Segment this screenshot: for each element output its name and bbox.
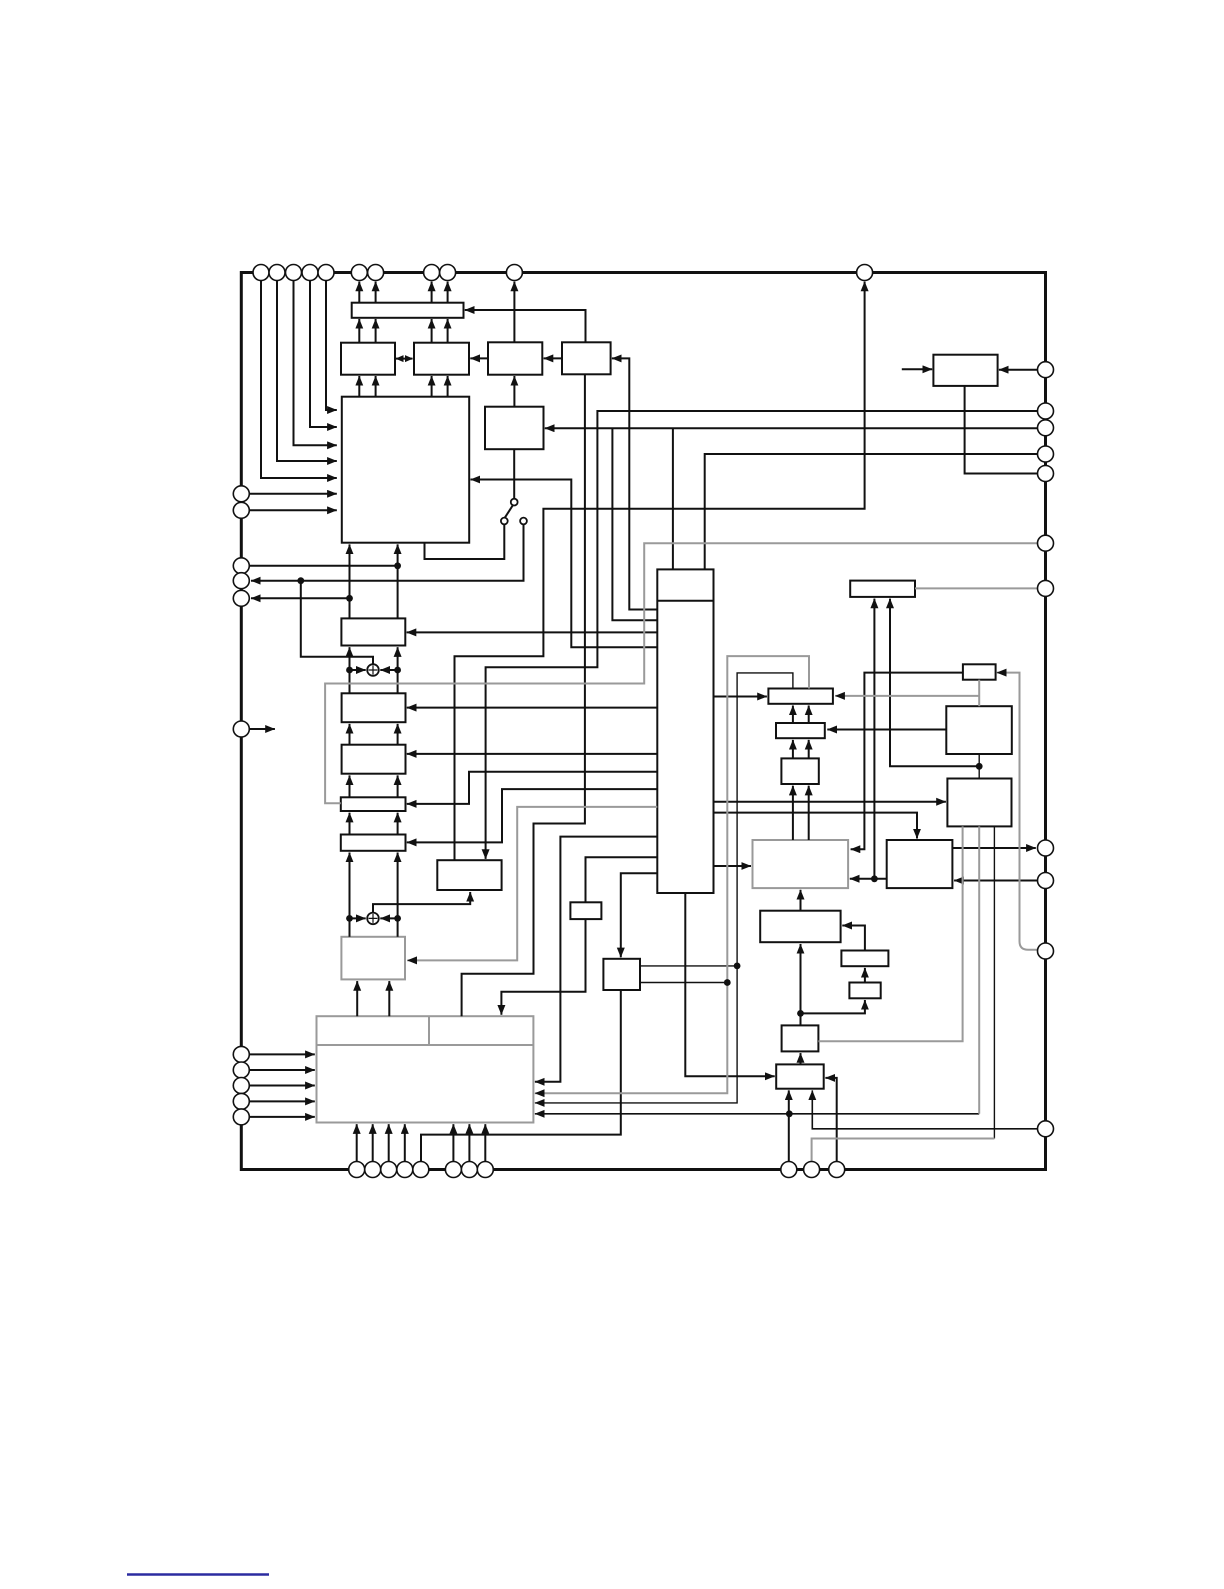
block I: [841, 951, 888, 967]
wire right block to pin R8: [952, 847, 1035, 849]
wire drop to tall block stub 620: [612, 428, 657, 620]
summing junction 1: [367, 664, 379, 676]
wire small mid register to left gray block: [851, 673, 963, 850]
wire tall block stub to big box right input: [471, 480, 658, 648]
blue underline (bottom left): [127, 1573, 269, 1576]
tall converter block: [657, 569, 713, 893]
wire pin T2 to big box input 2: [277, 281, 337, 462]
tall block divider: [657, 600, 713, 602]
block H: [760, 911, 840, 943]
register B2: [776, 723, 825, 738]
gray wire top middle register to pin R7: [915, 587, 1038, 589]
wire pin L2 to big box input 7: [249, 509, 336, 511]
gray wire block K to M2 bottom: [818, 826, 962, 1041]
register P5: [485, 407, 544, 450]
main decoder block (big box): [342, 397, 469, 543]
wire pin B6 to DSP bottom: [452, 1124, 454, 1161]
wire pin T11 to block F via left route: [455, 282, 865, 861]
block J: [849, 983, 880, 999]
wire P1 to bus register left pair: [358, 319, 360, 343]
block M1 (right middle): [946, 706, 1012, 754]
wire node to pin L5: [251, 597, 350, 599]
wire node2 to shift E bottom: [349, 853, 351, 919]
wire block G to DSP pair: [356, 981, 358, 1016]
wire branch to summing node 1: [301, 581, 373, 664]
wire tall block to P4: [612, 358, 657, 609]
wire block H to left gray block: [800, 890, 802, 911]
right border pins: [1038, 362, 1054, 378]
wire register B3 to B2 pair: [792, 740, 794, 759]
wire tall block to shift register D: [407, 772, 658, 804]
wire shift D to shift C: [349, 775, 351, 797]
gray wire pin R6 to shift register D: [325, 543, 1037, 803]
wire shift E to shift D: [349, 813, 351, 835]
DSP divider vertical: [428, 1016, 430, 1045]
summing node 1 input arrows: [350, 669, 366, 671]
block L: [776, 1064, 824, 1088]
wire pin T1 to big box input 1: [261, 281, 337, 479]
wire node down to shift B top: [349, 670, 351, 693]
wire shift C to shift B: [349, 724, 351, 745]
shift register C: [342, 745, 406, 774]
wire switch left contact to big box bottom: [425, 524, 505, 559]
summing junction 2: [367, 913, 379, 925]
IC outer border: [241, 273, 1045, 1170]
wire M2 to DSP right input 4: [535, 1113, 979, 1115]
wire register B2 to B1 pair: [792, 706, 794, 724]
wire branch node to block J bottom: [801, 1000, 865, 1013]
DSP divider horizontal: [317, 1044, 534, 1046]
wire node to shift A bottom: [349, 647, 351, 670]
wire right block output to left gray block: [850, 878, 887, 880]
wire pin R1 to top right block: [999, 369, 1038, 371]
wire P4 to P3: [544, 357, 562, 359]
black bus wire B1 drop to DSP right input 3: [535, 673, 793, 1103]
block G (gray outline): [341, 937, 405, 980]
wire block L to block K: [800, 1053, 802, 1064]
left border pins: [233, 486, 249, 502]
wire node up to top middle register: [873, 599, 875, 879]
small mid register: [963, 664, 996, 679]
junction dots: [394, 562, 401, 569]
wire tall block to shift register A: [407, 631, 658, 633]
register P4: [562, 342, 611, 374]
shift register D: [341, 797, 406, 811]
shift register E: [341, 835, 406, 851]
wire P5 to P3: [513, 376, 515, 407]
wire pin BB1 to block L bottom: [788, 1090, 790, 1161]
register P3: [488, 342, 542, 374]
wire shift A to big box bottom pair: [349, 544, 351, 618]
summing node 2 input arrows: [350, 917, 366, 919]
switch left contact: [501, 518, 508, 525]
block F: [437, 860, 501, 890]
wire M2 bottom to pin BB2 link vertical: [993, 826, 995, 1138]
wire pin T5 to big box input 5: [326, 281, 337, 411]
small block above DSP: [570, 902, 601, 919]
register B3: [781, 758, 818, 784]
top right block: [933, 355, 997, 386]
block M2 (right lower): [947, 779, 1011, 827]
wire block I to block H: [842, 926, 865, 951]
bus register box (top): [352, 303, 464, 318]
gray wire pin BB2 link: [812, 1139, 995, 1162]
wire pin L3 to node: [249, 565, 397, 567]
wire tall block to register B1: [714, 696, 767, 698]
wire pin R2 to block F top arrow: [486, 411, 1038, 859]
wire tall block stub to block BR top arrow: [621, 873, 658, 957]
wire bus register to pin T6: [358, 282, 360, 303]
wire drop to tall block top left: [672, 428, 674, 569]
switch lever: [505, 505, 514, 518]
wire tall block to right block top: [714, 813, 918, 839]
wire summing node 2 to block F bottom: [373, 892, 470, 913]
wire pin BL1 to DSP: [249, 1053, 314, 1055]
shift register A: [341, 618, 405, 645]
wire pin B3 to DSP bottom: [388, 1124, 390, 1161]
bottom border pins: [349, 1162, 365, 1178]
register B1: [768, 689, 833, 704]
wire tall block stub to DSP right input 1: [535, 837, 657, 1082]
wire pin BL3 to DSP: [249, 1085, 314, 1087]
wire pin L1 to big box input 6: [249, 493, 336, 495]
gray wire small mid register to B1: [978, 680, 980, 707]
block K: [782, 1025, 819, 1051]
wire bus register to pin T9: [447, 282, 449, 303]
wire pin R9 to right block: [954, 880, 1037, 882]
wire P1-P2 double arrow: [396, 358, 413, 360]
wire stub into top right block: [902, 368, 932, 370]
left gray block (bottom center): [753, 840, 849, 888]
wire M1 branch up to top middle register: [890, 599, 979, 767]
wire tall block stub through small block to DSP arrow: [586, 857, 658, 902]
wire pin B4 to DSP bottom: [404, 1124, 406, 1161]
wire tall block to shift register B: [407, 707, 658, 709]
wire tall block to left gray block: [714, 865, 752, 867]
DSP / interface block (gray outline): [317, 1016, 534, 1122]
gray wire tall block to block G: [407, 807, 657, 961]
block BR (beside small block): [603, 959, 640, 990]
gray bus wire B1 drop to DSP right input 2: [535, 656, 809, 1093]
wire big box to P1: [358, 376, 360, 397]
wire P5 bottom to switch pivot: [513, 449, 515, 499]
wire bus register to pin T7: [375, 282, 377, 303]
wire switch right contact to pin L4: [251, 524, 524, 581]
wire left gray block to B3 pair: [792, 786, 794, 840]
wire pin BL4 to DSP: [249, 1100, 314, 1102]
wire P3 to P2: [470, 357, 488, 359]
wire pin B7 to DSP bottom: [468, 1124, 470, 1161]
wire top right block to pin R5: [965, 386, 1038, 474]
wire P4 bottom to DSP top entry: [462, 374, 585, 1016]
wire pin T3 to big box input 3: [294, 281, 337, 446]
wire tall block bottom to block L: [685, 893, 774, 1076]
wire node2 down to block G top: [349, 918, 351, 936]
wire small block to DSP top arrow: [501, 919, 585, 1015]
wire pin BL2 to DSP: [249, 1069, 314, 1071]
wire block BR bottom to pin B5: [421, 990, 621, 1162]
switch right contact: [520, 518, 527, 525]
wire bus register to pin T8: [431, 282, 433, 303]
switch pivot contact: [511, 499, 518, 506]
wire pin L6 stub arrow: [249, 728, 275, 730]
wire pin R4 to tall block top right: [705, 454, 1038, 569]
wire pin B2 to DSP bottom: [372, 1124, 374, 1161]
gray wire pin R10 to small mid register: [997, 673, 1038, 950]
register P1: [341, 343, 395, 375]
shift register B: [342, 693, 406, 722]
wire pin B8 to DSP bottom: [484, 1124, 486, 1161]
wire pin T4 to big box input 4: [310, 281, 337, 428]
wire P2 to bus register right pair: [431, 319, 433, 343]
wire pin BL5 to DSP: [249, 1116, 314, 1118]
gray wire M2 bottom to DSP input 4 corner: [978, 826, 980, 1113]
wire tall block to shift register C: [407, 753, 658, 755]
top middle register: [850, 581, 915, 597]
wire block K to block H with branch to J: [800, 944, 802, 1025]
wire block BR outputs to bus nodes: [640, 965, 737, 967]
wire tall block to shift register E: [407, 789, 658, 842]
top border pins: [253, 265, 269, 281]
wire P4 top to bus register: [465, 310, 586, 342]
wire big box to P2: [431, 376, 433, 397]
wire M1 bottom to M2 top: [978, 754, 980, 779]
wire pin R3 to P5 and tall block: [545, 427, 1038, 429]
wire pin R11 to block L bottom: [812, 1090, 1037, 1128]
wire block J to block I: [864, 968, 866, 983]
wire tall block to block M2: [714, 801, 946, 803]
wire pin BB3 to block L right: [825, 1078, 836, 1162]
wire P3 to pin T10: [513, 282, 515, 343]
right block (bottom center): [887, 840, 953, 888]
wire block M1 to register B2: [827, 729, 946, 731]
wire pin B1 to DSP bottom: [356, 1124, 358, 1161]
register P2: [414, 343, 469, 375]
